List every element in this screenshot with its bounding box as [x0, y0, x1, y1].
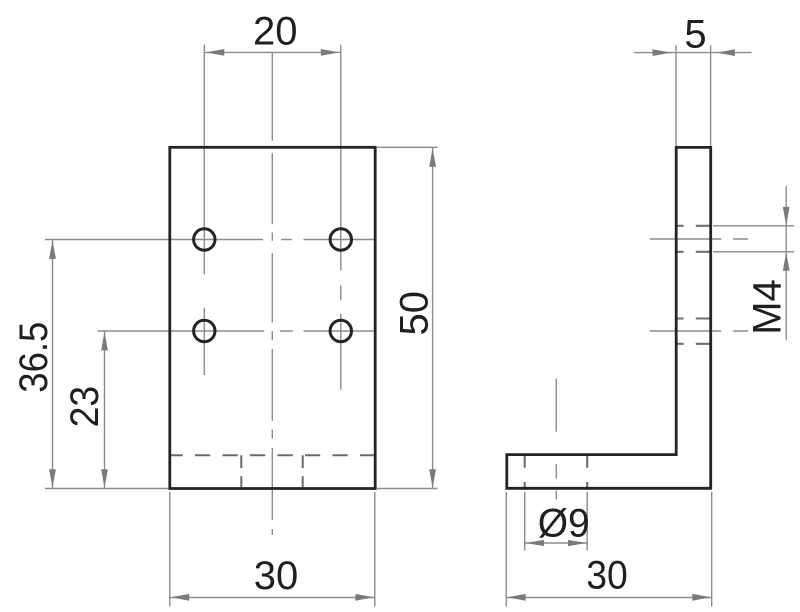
- dim 36.5/23 bottom extension: [45, 488, 169, 490]
- hidden dia9 hole edges: [524, 455, 526, 487]
- side hole row2 centerline: [650, 330, 748, 332]
- dim 5 line: [634, 52, 752, 54]
- dim 50 extension bottom: [377, 488, 438, 490]
- dim dia9 arrow left: [525, 540, 544, 546]
- dim 50 extension top: [377, 146, 438, 148]
- dim dia9 extensions: [525, 492, 588, 551]
- arrows front: [49, 49, 436, 601]
- dim 36.5 arrow down: [49, 469, 56, 488]
- hidden thread lines bottom hole: [675, 317, 710, 319]
- dim 30 front arrow right: [355, 594, 374, 601]
- hidden thread lines M4 top hole: [525, 226, 711, 488]
- svg-text:30: 30: [254, 554, 299, 598]
- dim M4 line: [785, 186, 787, 340]
- centerline vertical plate axis: [271, 53, 273, 536]
- svg-text:5: 5: [684, 13, 706, 57]
- dim M4 arrow down: [783, 207, 790, 226]
- dim dia9 line: [525, 542, 588, 544]
- dim 20 line: [204, 51, 340, 53]
- dim 23 arrow down: [101, 469, 108, 488]
- hidden hole edge right: [302, 455, 304, 487]
- hole row1 centerline: [45, 239, 375, 241]
- dim dia9 arrow right: [568, 540, 587, 546]
- hidden bend line: [171, 454, 374, 456]
- hole bottom-left: [194, 320, 215, 341]
- dim 23 arrow up: [101, 332, 108, 351]
- hole column right centerline/extension: [340, 45, 342, 390]
- svg-text:50: 50: [393, 291, 437, 336]
- dim 30 front extensions: [170, 492, 375, 607]
- dim 50 arrow down: [429, 469, 436, 488]
- dim 36.5 arrow up: [49, 240, 56, 259]
- svg-text:20: 20: [253, 10, 298, 54]
- dim 30 side arrow left: [507, 594, 526, 601]
- dim 30 side extensions: [506, 492, 711, 607]
- dim 30 front arrow left: [171, 594, 190, 601]
- dim 30 front line: [170, 597, 375, 599]
- svg-text:30: 30: [586, 554, 628, 598]
- hole bottom-right: [330, 320, 351, 341]
- dim 23 line: [104, 331, 106, 489]
- dia9 hole centerline: [555, 379, 557, 500]
- dim 5 arrow left: [716, 49, 735, 56]
- dim M4 arrow up: [783, 252, 790, 271]
- hidden hole edge left: [240, 455, 242, 487]
- svg-text:23: 23: [63, 386, 107, 428]
- dim 50 line: [432, 147, 434, 488]
- dim 20 arrow right: [321, 49, 340, 56]
- dim 5 extensions: [676, 45, 711, 146]
- dim 5 arrow right: [653, 49, 672, 56]
- L bracket outline: [507, 147, 711, 488]
- svg-text:36.5: 36.5: [12, 322, 56, 393]
- arrows side: [507, 49, 789, 601]
- side hole row1 centerline: [650, 238, 748, 240]
- hole row2 centerline: [98, 330, 376, 332]
- dim M4 extensions: [713, 226, 794, 252]
- hole top-right: [330, 229, 351, 250]
- plate outline: [170, 147, 375, 488]
- dim 36.5 line: [52, 240, 54, 489]
- dim 30 side arrow right: [692, 594, 711, 601]
- hole column left centerline/extension: [203, 45, 205, 375]
- hidden lines front bottom: [171, 455, 374, 487]
- svg-text:Ø9: Ø9: [538, 501, 590, 545]
- hole top-left: [194, 229, 215, 250]
- dim 20 arrow left: [206, 49, 225, 56]
- dim 50 arrow up: [429, 148, 436, 167]
- dim 30 side line: [506, 597, 711, 599]
- svg-text:M4: M4: [745, 279, 789, 335]
